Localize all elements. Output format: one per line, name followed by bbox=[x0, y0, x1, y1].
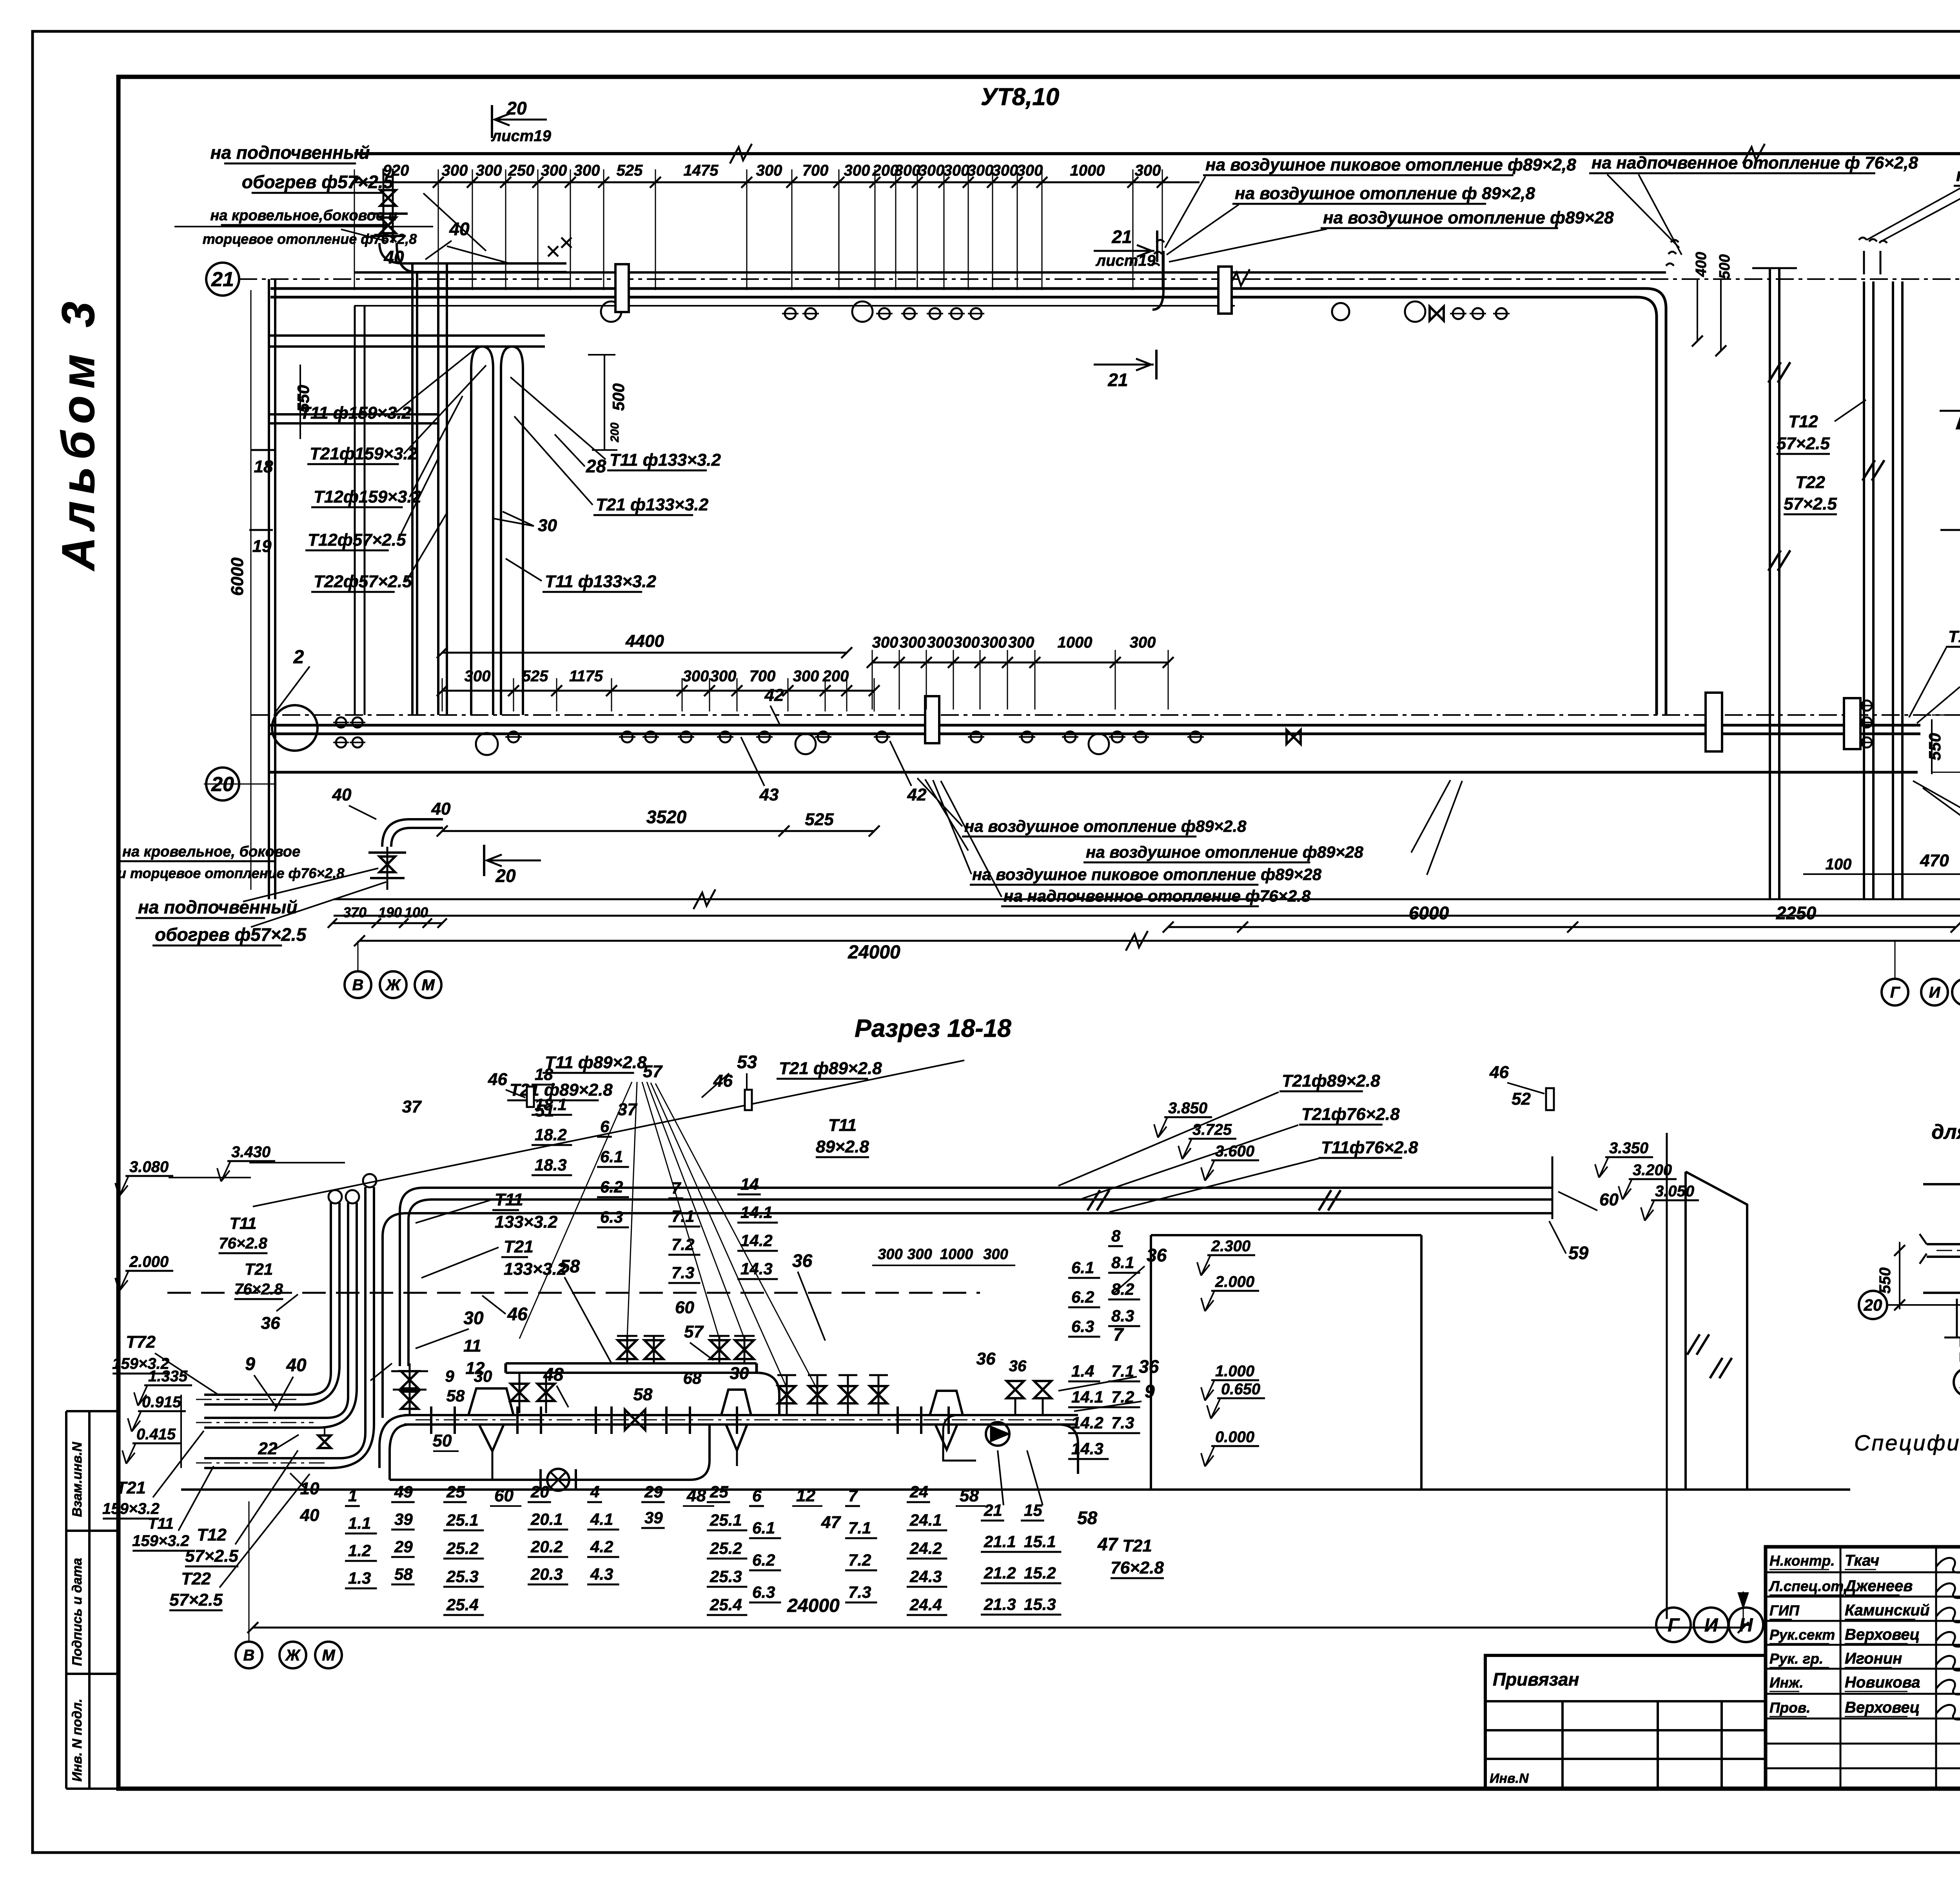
svg-text:Инв. N подл.: Инв. N подл. bbox=[70, 1699, 85, 1782]
svg-text:159×3.2: 159×3.2 bbox=[132, 1532, 189, 1550]
svg-text:12: 12 bbox=[796, 1486, 815, 1505]
svg-text:0.415: 0.415 bbox=[136, 1426, 176, 1443]
svg-text:58: 58 bbox=[960, 1486, 979, 1505]
svg-text:Т11: Т11 bbox=[828, 1116, 857, 1135]
svg-text:40: 40 bbox=[383, 247, 404, 267]
svg-text:15.1: 15.1 bbox=[1024, 1532, 1056, 1551]
svg-text:300: 300 bbox=[944, 162, 970, 179]
svg-text:300: 300 bbox=[927, 634, 953, 651]
svg-text:3.080: 3.080 bbox=[129, 1158, 169, 1176]
svg-text:21.3: 21.3 bbox=[984, 1595, 1016, 1613]
svg-text:на воздушное отопление ф89×28: на воздушное отопление ф89×28 bbox=[1086, 843, 1363, 861]
svg-text:1000: 1000 bbox=[1058, 634, 1093, 651]
svg-text:на подпочвенный: на подпочвенный bbox=[211, 142, 370, 163]
svg-text:30: 30 bbox=[474, 1367, 492, 1385]
svg-text:300: 300 bbox=[983, 1246, 1008, 1263]
svg-text:400: 400 bbox=[1693, 252, 1710, 277]
svg-text:6.1: 6.1 bbox=[600, 1147, 623, 1166]
svg-text:В: В bbox=[352, 976, 364, 994]
svg-text:300: 300 bbox=[878, 1246, 902, 1263]
svg-text:8.2: 8.2 bbox=[1111, 1280, 1134, 1298]
svg-text:Дженеев: Дженеев bbox=[1844, 1577, 1913, 1595]
svg-text:Т11: Т11 bbox=[495, 1190, 523, 1209]
svg-text:50: 50 bbox=[433, 1431, 452, 1450]
svg-text:Ткач: Ткач bbox=[1845, 1552, 1879, 1569]
svg-text:300: 300 bbox=[1017, 162, 1043, 179]
svg-text:300: 300 bbox=[793, 668, 819, 685]
svg-text:300: 300 bbox=[981, 634, 1007, 651]
svg-text:Привязан: Привязан bbox=[1493, 1669, 1579, 1689]
svg-text:Разрез 18-18: Разрез 18-18 bbox=[855, 1014, 1011, 1042]
svg-text:57×2.5: 57×2.5 bbox=[169, 1590, 223, 1610]
svg-text:58: 58 bbox=[633, 1385, 653, 1404]
svg-text:700: 700 bbox=[750, 668, 776, 685]
svg-text:Т11 ф159×3.2: Т11 ф159×3.2 bbox=[300, 403, 412, 423]
svg-text:Т21 ф133×3.2: Т21 ф133×3.2 bbox=[596, 495, 709, 514]
svg-text:Т11 ф133×3.2: Т11 ф133×3.2 bbox=[610, 450, 721, 470]
svg-text:Верховец: Верховец bbox=[1845, 1626, 1920, 1643]
svg-text:на подпочвенный обогрев ф57: на подпочвенный обогрев ф57×2,5 bbox=[1956, 165, 1960, 185]
svg-text:4400: 4400 bbox=[625, 632, 664, 651]
svg-text:18.1: 18.1 bbox=[535, 1095, 567, 1114]
svg-text:Т22: Т22 bbox=[181, 1569, 211, 1588]
svg-text:300: 300 bbox=[476, 162, 502, 179]
svg-text:Новикова: Новикова bbox=[1845, 1674, 1920, 1691]
svg-text:37: 37 bbox=[402, 1097, 422, 1116]
svg-text:57×2.5: 57×2.5 bbox=[185, 1546, 238, 1566]
svg-text:21: 21 bbox=[211, 268, 234, 291]
svg-text:20.3: 20.3 bbox=[530, 1565, 563, 1583]
svg-text:76×2.8: 76×2.8 bbox=[1111, 1558, 1164, 1577]
svg-text:39: 39 bbox=[644, 1508, 663, 1527]
svg-text:на надпочвенное отопление ф 7: на надпочвенное отопление ф 76×2,8 bbox=[1592, 153, 1918, 172]
svg-text:300: 300 bbox=[895, 162, 921, 179]
svg-text:37: 37 bbox=[618, 1100, 638, 1119]
svg-text:25.1: 25.1 bbox=[446, 1511, 479, 1529]
svg-text:47: 47 bbox=[821, 1513, 841, 1532]
svg-text:Т21ф76×2.8: Т21ф76×2.8 bbox=[1301, 1105, 1400, 1124]
svg-text:Л.спец.от.: Л.спец.от. bbox=[1768, 1578, 1847, 1594]
svg-text:21.1: 21.1 bbox=[984, 1532, 1016, 1551]
svg-text:УТ8,10: УТ8,10 bbox=[981, 83, 1060, 111]
svg-text:Подпись и дата: Подпись и дата bbox=[70, 1558, 85, 1666]
svg-text:36: 36 bbox=[1139, 1356, 1159, 1377]
svg-text:52: 52 bbox=[1512, 1089, 1531, 1109]
svg-text:7: 7 bbox=[848, 1486, 858, 1505]
svg-text:Т21: Т21 bbox=[245, 1260, 273, 1278]
svg-text:В: В bbox=[243, 1647, 255, 1664]
svg-text:300: 300 bbox=[756, 162, 782, 179]
svg-text:36: 36 bbox=[261, 1314, 280, 1333]
svg-text:Т21: Т21 bbox=[116, 1478, 146, 1497]
svg-text:9: 9 bbox=[245, 1354, 255, 1374]
svg-text:48: 48 bbox=[543, 1364, 564, 1385]
svg-text:550: 550 bbox=[294, 385, 312, 412]
svg-text:6.2: 6.2 bbox=[752, 1551, 775, 1569]
svg-text:20: 20 bbox=[506, 98, 527, 118]
svg-text:1.1: 1.1 bbox=[348, 1514, 371, 1532]
svg-text:300: 300 bbox=[683, 668, 709, 685]
svg-text:60: 60 bbox=[494, 1486, 514, 1505]
svg-text:300: 300 bbox=[918, 162, 945, 179]
svg-text:6.1: 6.1 bbox=[1071, 1258, 1094, 1277]
svg-text:на надпочвенное отопление ф76×: на надпочвенное отопление ф76×2.8 bbox=[1004, 887, 1311, 905]
svg-text:24.2: 24.2 bbox=[909, 1539, 942, 1557]
svg-text:Т21: Т21 bbox=[504, 1237, 534, 1256]
svg-text:47: 47 bbox=[1097, 1534, 1119, 1554]
svg-text:25: 25 bbox=[710, 1483, 728, 1501]
svg-text:20: 20 bbox=[1864, 1296, 1882, 1314]
svg-text:6000: 6000 bbox=[228, 557, 247, 596]
svg-text:60: 60 bbox=[675, 1298, 694, 1317]
svg-text:Т11: Т11 bbox=[229, 1214, 256, 1232]
svg-text:470: 470 bbox=[1920, 851, 1949, 870]
svg-text:14.3: 14.3 bbox=[1071, 1439, 1103, 1458]
svg-text:29: 29 bbox=[394, 1537, 413, 1556]
svg-text:7.2: 7.2 bbox=[848, 1551, 871, 1569]
svg-text:300: 300 bbox=[1130, 634, 1156, 651]
svg-text:100: 100 bbox=[1826, 856, 1852, 873]
svg-text:11: 11 bbox=[463, 1336, 481, 1356]
svg-text:300: 300 bbox=[954, 634, 980, 651]
svg-text:76×2.8: 76×2.8 bbox=[234, 1281, 283, 1298]
svg-text:6.1: 6.1 bbox=[752, 1519, 775, 1537]
svg-text:на воздушное отопление ф89×2.8: на воздушное отопление ф89×2.8 bbox=[964, 817, 1247, 835]
svg-text:1000: 1000 bbox=[940, 1246, 973, 1263]
svg-text:Т22ф57×2.5: Т22ф57×2.5 bbox=[314, 572, 412, 591]
svg-text:лист19: лист19 bbox=[1095, 252, 1156, 269]
svg-text:на подпочвенный: на подпочвенный bbox=[138, 897, 298, 917]
svg-text:М: М bbox=[322, 1647, 336, 1664]
svg-text:25.3: 25.3 bbox=[446, 1567, 479, 1586]
svg-text:46: 46 bbox=[488, 1070, 507, 1089]
svg-text:7.1: 7.1 bbox=[848, 1519, 871, 1537]
svg-text:25.1: 25.1 bbox=[710, 1511, 742, 1529]
svg-text:10: 10 bbox=[300, 1479, 319, 1498]
svg-text:7.1: 7.1 bbox=[1111, 1362, 1134, 1380]
svg-text:200: 200 bbox=[608, 423, 621, 443]
svg-text:550: 550 bbox=[1926, 733, 1944, 760]
svg-text:36: 36 bbox=[1009, 1357, 1027, 1375]
svg-text:8: 8 bbox=[1111, 1227, 1121, 1245]
svg-text:Т11 ф133×3.2: Т11 ф133×3.2 bbox=[545, 572, 657, 591]
svg-text:1175: 1175 bbox=[569, 668, 603, 685]
svg-text:500: 500 bbox=[1717, 254, 1733, 279]
svg-text:3.850: 3.850 bbox=[1168, 1100, 1207, 1117]
svg-text:46: 46 bbox=[1489, 1063, 1509, 1082]
svg-text:обогрев ф57×2.5: обогрев ф57×2.5 bbox=[155, 924, 307, 945]
svg-text:Инв.N: Инв.N bbox=[1490, 1771, 1529, 1786]
svg-text:36: 36 bbox=[792, 1250, 813, 1271]
svg-text:300: 300 bbox=[907, 1246, 932, 1263]
svg-text:Т11: Т11 bbox=[148, 1515, 174, 1532]
svg-text:8.1: 8.1 bbox=[1111, 1253, 1134, 1272]
svg-text:25.2: 25.2 bbox=[446, 1539, 479, 1557]
svg-text:20: 20 bbox=[495, 866, 516, 886]
svg-text:36: 36 bbox=[976, 1349, 996, 1368]
svg-text:Взам.инв.N: Взам.инв.N bbox=[70, 1441, 85, 1517]
svg-text:60: 60 bbox=[1599, 1190, 1619, 1209]
svg-text:300: 300 bbox=[465, 668, 491, 685]
svg-text:20.1: 20.1 bbox=[530, 1510, 563, 1528]
svg-text:700: 700 bbox=[802, 162, 829, 179]
svg-text:14.1: 14.1 bbox=[1071, 1388, 1103, 1406]
svg-text:2.000: 2.000 bbox=[1215, 1273, 1254, 1290]
svg-text:15.3: 15.3 bbox=[1024, 1595, 1056, 1613]
svg-text:18.3: 18.3 bbox=[535, 1156, 567, 1174]
svg-text:525: 525 bbox=[805, 810, 834, 829]
svg-text:и торцевое отопление ф76×2.8: и торцевое отопление ф76×2.8 bbox=[118, 865, 344, 881]
svg-text:на кровельное, боковое: на кровельное, боковое bbox=[122, 844, 300, 860]
svg-text:Т22: Т22 bbox=[1795, 473, 1825, 492]
svg-text:57: 57 bbox=[684, 1322, 704, 1341]
svg-text:24000: 24000 bbox=[848, 942, 900, 963]
svg-text:20: 20 bbox=[530, 1483, 549, 1501]
svg-text:133×3.2: 133×3.2 bbox=[495, 1212, 558, 1232]
svg-text:ГИП: ГИП bbox=[1769, 1602, 1800, 1619]
svg-text:Альбом 3: Альбом 3 bbox=[53, 294, 104, 572]
svg-text:Т12 ф159×3.2, для УТ10 ф 133×3: Т12 ф159×3.2, для УТ10 ф 133×3.2 bbox=[1948, 627, 1960, 646]
svg-text:Рук.сект: Рук.сект bbox=[1769, 1627, 1835, 1643]
svg-text:Пров.: Пров. bbox=[1769, 1700, 1810, 1716]
svg-text:300: 300 bbox=[541, 162, 567, 179]
svg-text:200: 200 bbox=[822, 668, 849, 685]
svg-text:24.4: 24.4 bbox=[909, 1595, 942, 1614]
svg-text:7.3: 7.3 bbox=[671, 1263, 694, 1282]
svg-text:И: И bbox=[1704, 1615, 1719, 1636]
svg-text:8.3: 8.3 bbox=[1111, 1307, 1134, 1325]
svg-text:0.650: 0.650 bbox=[1221, 1381, 1260, 1398]
svg-text:57×2.5: 57×2.5 bbox=[1777, 434, 1830, 453]
svg-text:15.2: 15.2 bbox=[1024, 1564, 1056, 1582]
svg-text:6.3: 6.3 bbox=[1071, 1317, 1094, 1336]
svg-text:Т12ф57×2.5: Т12ф57×2.5 bbox=[308, 530, 406, 550]
svg-text:14: 14 bbox=[740, 1175, 759, 1193]
svg-text:6: 6 bbox=[752, 1486, 762, 1505]
svg-text:25.3: 25.3 bbox=[710, 1567, 742, 1586]
svg-text:300: 300 bbox=[844, 162, 870, 179]
svg-text:18.2: 18.2 bbox=[535, 1125, 567, 1144]
svg-text:6.3: 6.3 bbox=[752, 1583, 775, 1601]
svg-text:2250: 2250 bbox=[1776, 903, 1817, 923]
svg-text:29: 29 bbox=[644, 1483, 663, 1501]
svg-text:370: 370 bbox=[343, 904, 367, 920]
svg-text:2: 2 bbox=[293, 647, 304, 668]
svg-text:300: 300 bbox=[574, 162, 600, 179]
svg-text:6.2: 6.2 bbox=[1071, 1288, 1094, 1306]
svg-text:250: 250 bbox=[508, 162, 535, 179]
svg-text:46: 46 bbox=[713, 1071, 733, 1091]
svg-text:39: 39 bbox=[394, 1510, 413, 1528]
svg-text:190: 190 bbox=[378, 904, 402, 920]
svg-text:24: 24 bbox=[909, 1483, 928, 1501]
svg-text:3.430: 3.430 bbox=[231, 1143, 270, 1161]
svg-text:14.1: 14.1 bbox=[740, 1203, 773, 1221]
svg-text:1.4: 1.4 bbox=[1071, 1362, 1094, 1380]
svg-text:58: 58 bbox=[1077, 1508, 1098, 1528]
svg-text:25.4: 25.4 bbox=[446, 1595, 479, 1614]
svg-text:14.2: 14.2 bbox=[740, 1231, 773, 1250]
svg-text:Т12: Т12 bbox=[1788, 412, 1818, 431]
svg-text:Т21 ф89×2.8: Т21 ф89×2.8 bbox=[779, 1059, 882, 1078]
svg-text:21: 21 bbox=[1111, 227, 1132, 247]
svg-text:300: 300 bbox=[1135, 162, 1161, 179]
svg-text:9: 9 bbox=[445, 1367, 454, 1385]
svg-text:57: 57 bbox=[643, 1062, 663, 1081]
svg-text:43: 43 bbox=[759, 785, 779, 804]
svg-text:Т21ф159×3.2: Т21ф159×3.2 bbox=[310, 444, 418, 463]
svg-text:19: 19 bbox=[252, 537, 272, 556]
svg-text:1.2: 1.2 bbox=[348, 1541, 371, 1560]
svg-text:4.2: 4.2 bbox=[590, 1537, 613, 1556]
svg-text:300: 300 bbox=[710, 668, 737, 685]
svg-text:6000: 6000 bbox=[1409, 903, 1449, 923]
svg-text:Г: Г bbox=[1890, 984, 1901, 1001]
svg-text:49: 49 bbox=[394, 1483, 413, 1501]
svg-text:30: 30 bbox=[538, 516, 557, 535]
svg-text:300: 300 bbox=[900, 634, 926, 651]
svg-text:42: 42 bbox=[764, 686, 784, 705]
svg-text:25.2: 25.2 bbox=[710, 1539, 742, 1557]
svg-text:обогрев ф57×2.5: обогрев ф57×2.5 bbox=[242, 172, 394, 192]
svg-text:0.000: 0.000 bbox=[1215, 1428, 1254, 1446]
svg-text:58: 58 bbox=[394, 1565, 413, 1583]
svg-text:133×3.2: 133×3.2 bbox=[504, 1259, 567, 1279]
svg-text:500: 500 bbox=[609, 383, 628, 411]
svg-text:Игонин: Игонин bbox=[1845, 1650, 1902, 1667]
svg-text:Т11 ф89×2.8: Т11 ф89×2.8 bbox=[545, 1053, 647, 1072]
svg-text:Т12ф159×3.2: Т12ф159×3.2 bbox=[314, 487, 422, 506]
svg-text:300: 300 bbox=[992, 162, 1018, 179]
svg-text:18: 18 bbox=[254, 457, 273, 476]
svg-text:20.2: 20.2 bbox=[530, 1537, 563, 1556]
svg-text:30: 30 bbox=[730, 1364, 749, 1383]
svg-text:4.3: 4.3 bbox=[590, 1565, 613, 1583]
svg-text:46: 46 bbox=[507, 1304, 528, 1324]
svg-text:3520: 3520 bbox=[646, 807, 687, 827]
svg-text:21: 21 bbox=[984, 1501, 1002, 1519]
svg-text:на воздушное пиковое отопление: на воздушное пиковое отопление ф89×28 bbox=[972, 865, 1322, 884]
svg-text:3.050: 3.050 bbox=[1655, 1183, 1694, 1200]
svg-text:7.3: 7.3 bbox=[1111, 1414, 1134, 1432]
svg-text:21: 21 bbox=[1107, 370, 1128, 390]
svg-text:Т12: Т12 bbox=[197, 1525, 227, 1544]
svg-text:40: 40 bbox=[431, 799, 451, 818]
svg-text:Т72: Т72 bbox=[126, 1332, 156, 1352]
svg-text:21.2: 21.2 bbox=[984, 1564, 1016, 1582]
svg-text:Верховец: Верховец bbox=[1845, 1699, 1920, 1716]
svg-text:на кровельное,боковое и: на кровельное,боковое и bbox=[210, 207, 397, 224]
svg-text:550: 550 bbox=[1877, 1267, 1894, 1294]
svg-text:76×2.8: 76×2.8 bbox=[219, 1235, 267, 1252]
svg-text:100: 100 bbox=[405, 904, 428, 920]
svg-text:Ж: Ж bbox=[385, 976, 401, 994]
svg-text:0.915: 0.915 bbox=[142, 1394, 181, 1411]
svg-text:7.3: 7.3 bbox=[848, 1583, 871, 1601]
svg-text:2.000: 2.000 bbox=[129, 1253, 169, 1270]
svg-text:торцевое отопление ф76×2,8: торцевое отопление ф76×2,8 bbox=[203, 231, 417, 247]
svg-text:28: 28 bbox=[586, 456, 606, 476]
svg-text:24000: 24000 bbox=[787, 1595, 840, 1616]
svg-text:59: 59 bbox=[1568, 1243, 1589, 1263]
svg-text:7.2: 7.2 bbox=[1111, 1388, 1134, 1406]
svg-text:6.2: 6.2 bbox=[600, 1178, 623, 1196]
svg-text:лист19: лист19 bbox=[491, 127, 551, 145]
svg-text:24.1: 24.1 bbox=[909, 1511, 942, 1529]
svg-text:Каминский: Каминский bbox=[1845, 1602, 1929, 1619]
svg-text:Инж.: Инж. bbox=[1769, 1675, 1803, 1691]
svg-text:40: 40 bbox=[300, 1506, 319, 1525]
svg-text:14.2: 14.2 bbox=[1071, 1414, 1103, 1432]
svg-text:6.3: 6.3 bbox=[600, 1208, 623, 1226]
svg-text:58: 58 bbox=[446, 1386, 465, 1405]
svg-text:25: 25 bbox=[446, 1483, 465, 1501]
svg-text:18: 18 bbox=[535, 1065, 553, 1083]
svg-text:1.000: 1.000 bbox=[1215, 1363, 1254, 1380]
svg-text:Спецификацию узлов трубопров: Спецификацию узлов трубопроводов см. лис… bbox=[1854, 1430, 1960, 1455]
svg-text:на воздушное отопление ф89×28: на воздушное отопление ф89×28 bbox=[1323, 208, 1614, 227]
svg-text:48: 48 bbox=[686, 1486, 706, 1505]
svg-text:525: 525 bbox=[617, 162, 643, 179]
svg-text:40: 40 bbox=[286, 1355, 307, 1375]
svg-text:1475: 1475 bbox=[684, 162, 719, 179]
svg-text:3.725: 3.725 bbox=[1192, 1121, 1232, 1138]
svg-text:4.1: 4.1 bbox=[590, 1510, 613, 1528]
svg-text:30: 30 bbox=[463, 1308, 484, 1328]
svg-text:25.4: 25.4 bbox=[710, 1595, 742, 1614]
svg-text:42: 42 bbox=[907, 785, 927, 804]
svg-text:68: 68 bbox=[683, 1369, 702, 1387]
svg-text:Н.контр.: Н.контр. bbox=[1769, 1553, 1835, 1569]
svg-text:24.3: 24.3 bbox=[909, 1567, 942, 1586]
svg-text:Т21: Т21 bbox=[1122, 1536, 1152, 1555]
svg-text:7: 7 bbox=[1113, 1324, 1124, 1345]
svg-text:40: 40 bbox=[449, 219, 470, 239]
svg-text:на воздушное отопление ф 89×2,: на воздушное отопление ф 89×2,8 bbox=[1235, 184, 1535, 203]
svg-text:1000: 1000 bbox=[1070, 162, 1105, 179]
svg-text:4: 4 bbox=[590, 1483, 599, 1501]
svg-text:15: 15 bbox=[1024, 1501, 1042, 1519]
svg-text:Т11ф76×2.8: Т11ф76×2.8 bbox=[1321, 1138, 1418, 1157]
svg-text:Ж: Ж bbox=[285, 1647, 301, 1664]
svg-text:300: 300 bbox=[967, 162, 994, 179]
svg-text:1.3: 1.3 bbox=[348, 1569, 371, 1587]
svg-text:300: 300 bbox=[442, 162, 468, 179]
svg-text:53: 53 bbox=[737, 1052, 757, 1072]
svg-text:300: 300 bbox=[1008, 634, 1034, 651]
svg-text:для УТ8: для УТ8 bbox=[1931, 1121, 1960, 1143]
svg-text:40: 40 bbox=[332, 785, 352, 804]
svg-text:на воздушное пиковое отопление: на воздушное пиковое отопление ф89×2,8 bbox=[1205, 155, 1576, 174]
svg-text:300: 300 bbox=[872, 634, 898, 651]
svg-text:36: 36 bbox=[1147, 1245, 1167, 1265]
svg-text:3.350: 3.350 bbox=[1609, 1140, 1648, 1157]
svg-text:Рук. гр.: Рук. гр. bbox=[1769, 1651, 1823, 1667]
svg-text:6: 6 bbox=[600, 1117, 610, 1136]
svg-text:И: И bbox=[1929, 984, 1941, 1001]
svg-text:525: 525 bbox=[522, 668, 548, 685]
svg-text:1: 1 bbox=[348, 1486, 357, 1505]
svg-text:Г: Г bbox=[1668, 1615, 1680, 1636]
svg-text:Т21ф89×2.8: Т21ф89×2.8 bbox=[1282, 1071, 1380, 1091]
svg-text:57×2.5: 57×2.5 bbox=[1784, 494, 1837, 514]
svg-text:89×2.8: 89×2.8 bbox=[816, 1137, 869, 1156]
svg-text:2.300: 2.300 bbox=[1211, 1238, 1250, 1255]
svg-text:М: М bbox=[421, 976, 435, 994]
